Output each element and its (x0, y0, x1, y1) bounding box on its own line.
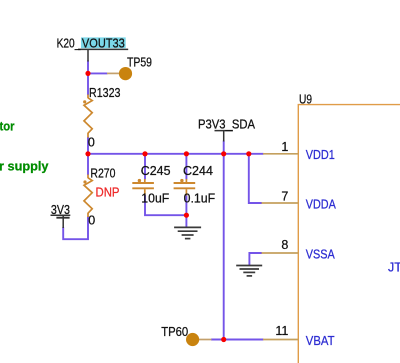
svg-text:VDD1: VDD1 (306, 148, 335, 162)
svg-text:TP59: TP59 (127, 56, 152, 70)
svg-text:P3V3_SDA: P3V3_SDA (198, 118, 256, 132)
svg-text:1: 1 (281, 140, 288, 154)
svg-text:VBAT: VBAT (306, 334, 335, 348)
svg-text:3V3: 3V3 (51, 203, 70, 217)
svg-text:r supply: r supply (0, 159, 49, 173)
svg-text:tor: tor (0, 120, 15, 134)
svg-text:R1323: R1323 (89, 86, 121, 100)
svg-text:11: 11 (275, 324, 288, 338)
svg-text:VOUT33: VOUT33 (82, 37, 125, 51)
svg-text:K20_: K20_ (57, 37, 82, 51)
svg-text:8: 8 (281, 238, 288, 252)
svg-text:TP60: TP60 (161, 325, 188, 339)
svg-text:10uF: 10uF (141, 191, 169, 205)
svg-text:C244: C244 (183, 164, 213, 178)
svg-text:C245: C245 (141, 164, 171, 178)
svg-text:VSSA: VSSA (306, 248, 336, 262)
svg-text:VDDA: VDDA (306, 198, 337, 212)
svg-text:R270: R270 (90, 167, 115, 181)
svg-text:0.1uF: 0.1uF (184, 191, 216, 205)
svg-text:U9: U9 (299, 92, 312, 106)
svg-text:JTC: JTC (388, 261, 400, 275)
svg-text:DNP: DNP (96, 185, 120, 199)
svg-text:0: 0 (88, 214, 95, 228)
svg-text:0: 0 (88, 135, 95, 149)
svg-text:7: 7 (281, 190, 288, 204)
